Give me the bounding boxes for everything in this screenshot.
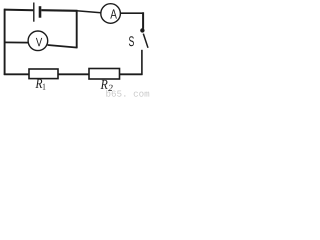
wire bottom [4,73,143,75]
battery B1 long plate [33,3,35,22]
wire left side vertical [4,9,6,75]
switch S label [129,36,134,46]
wire right side lower vertical [141,50,143,75]
wire voltmeter branch right vertical [76,11,78,49]
switch S blade [143,34,148,48]
resistor R2 value label [101,80,113,91]
wire voltmeter to junction horizontal [48,45,78,48]
watermark [106,90,149,97]
wire top-left segment [4,9,33,12]
wire right side upper vertical [142,12,144,29]
resistor R2 box [89,69,120,80]
resistor R1 box [29,69,58,79]
ammeter U1 circle [101,4,121,24]
switch S pivot dot [140,28,144,32]
ammeter U1 label A [110,9,117,18]
wire ammeter to top-right corner [120,12,144,14]
resistor R1 value label [35,79,45,90]
voltmeter U2 circle [28,31,48,51]
wire junction to ammeter [77,11,101,13]
voltmeter U2 label V [36,38,42,46]
wire battery to junction [41,9,77,12]
battery B1 short thick plate [39,6,42,18]
wire voltmeter branch left horizontal [5,41,29,43]
